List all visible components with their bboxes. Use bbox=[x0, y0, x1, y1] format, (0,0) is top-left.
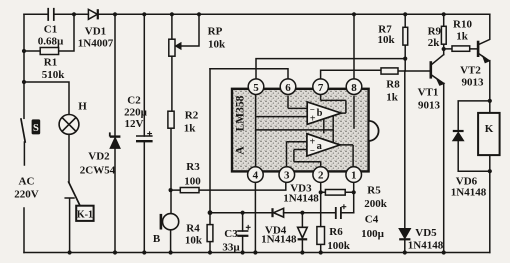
svg-text:3: 3 bbox=[284, 170, 290, 182]
svg-text:1N4148: 1N4148 bbox=[451, 186, 487, 198]
switch S lever bbox=[21, 119, 25, 142]
svg-text:220V: 220V bbox=[14, 189, 39, 201]
svg-text:10k: 10k bbox=[377, 34, 395, 46]
wire VT2 emitter down bbox=[478, 53, 489, 101]
resistor R3 bbox=[180, 188, 199, 193]
wire RP wiper bbox=[181, 14, 199, 46]
svg-text:1: 1 bbox=[351, 170, 357, 182]
wire a output to pin1 bbox=[340, 145, 353, 167]
zener diode VD2 bbox=[110, 132, 121, 148]
pin circles bbox=[248, 79, 362, 183]
wire b output to pin7 bbox=[321, 95, 346, 113]
wire pin8 to top rail bbox=[353, 14, 355, 79]
svg-text:1N4007: 1N4007 bbox=[78, 38, 114, 50]
svg-text:1k: 1k bbox=[456, 31, 469, 43]
wire R10 row bbox=[444, 48, 477, 50]
svg-text:33µ: 33µ bbox=[222, 242, 240, 254]
svg-text:1k: 1k bbox=[184, 123, 197, 135]
wire VT1 emitter bbox=[431, 75, 444, 253]
wire left vertical from top rail to switch bbox=[23, 14, 25, 118]
wire pin1 column bbox=[353, 182, 355, 212]
svg-text:K: K bbox=[485, 123, 494, 135]
svg-text:510k: 510k bbox=[42, 69, 66, 81]
wire branch middle bar bbox=[256, 129, 334, 131]
wire R5 row bbox=[321, 191, 354, 193]
wire vertical V1 between amps bbox=[323, 119, 325, 134]
svg-text:R10: R10 bbox=[453, 19, 472, 31]
svg-text:b: b bbox=[317, 108, 323, 119]
resistor R6 bbox=[317, 227, 325, 245]
wire R3 row to pin 3 bbox=[171, 168, 286, 191]
relay contact label K-1 bbox=[76, 206, 93, 221]
svg-text:5: 5 bbox=[253, 82, 259, 94]
wire pin7 to R8 to VT1 base bbox=[321, 70, 430, 79]
svg-text:8: 8 bbox=[351, 82, 357, 94]
wire pin6 net long vertical x=210 bbox=[209, 69, 211, 225]
svg-text:R3: R3 bbox=[186, 161, 200, 173]
diode VD6 bbox=[453, 131, 464, 141]
op-amp a triangle bbox=[307, 134, 340, 156]
capacitor C3 bbox=[237, 225, 250, 236]
svg-text:2CW54: 2CW54 bbox=[80, 165, 116, 177]
resistor R1 bbox=[40, 48, 58, 55]
pin 3 bbox=[279, 167, 295, 183]
diode VD1 bbox=[88, 9, 97, 19]
capacitor C4 bbox=[336, 204, 347, 219]
svg-text:9013: 9013 bbox=[462, 77, 485, 89]
svg-text:2: 2 bbox=[318, 170, 324, 182]
wire VD6 bottom loop bbox=[458, 141, 490, 172]
wire lamp to relay contact bbox=[68, 134, 70, 182]
svg-text:4: 4 bbox=[253, 170, 259, 182]
svg-text:VD1: VD1 bbox=[85, 26, 106, 38]
svg-text:1k: 1k bbox=[386, 92, 399, 104]
wire C3 column bbox=[242, 213, 244, 253]
diode VD3 bbox=[273, 208, 284, 217]
wire K column bbox=[489, 101, 491, 253]
svg-text:2k: 2k bbox=[428, 37, 441, 49]
switch S label bbox=[32, 119, 41, 134]
microphone B bbox=[161, 214, 179, 230]
pin 1 bbox=[346, 167, 362, 183]
svg-text:1N4148: 1N4148 bbox=[283, 193, 319, 205]
svg-text:1N4148: 1N4148 bbox=[408, 239, 444, 251]
svg-text:+: + bbox=[310, 114, 316, 125]
svg-text:6: 6 bbox=[285, 82, 291, 94]
pin 2 bbox=[313, 167, 329, 183]
wire pin5 to pin4 internal bbox=[255, 95, 257, 167]
wire VD2 column bbox=[114, 14, 116, 252]
svg-text:200k: 200k bbox=[364, 198, 388, 210]
svg-text:a: a bbox=[317, 141, 323, 152]
resistor R5 bbox=[325, 190, 345, 196]
wire mic to bottom rail bbox=[170, 230, 172, 253]
resistor R8 bbox=[381, 68, 398, 74]
wire R7 column bbox=[404, 14, 406, 71]
op-amp b triangle bbox=[307, 102, 341, 125]
capacitor C1 bbox=[48, 8, 54, 21]
wire top rail bbox=[24, 13, 490, 15]
pin 5 bbox=[248, 79, 264, 95]
svg-text:VD5: VD5 bbox=[415, 227, 437, 239]
resistor R2 bbox=[168, 111, 174, 128]
pin 4 bbox=[248, 167, 264, 183]
svg-text:R6: R6 bbox=[329, 226, 343, 238]
svg-text:K-1: K-1 bbox=[77, 210, 93, 221]
svg-text:C3: C3 bbox=[224, 228, 238, 240]
svg-text:LM358: LM358 bbox=[235, 95, 247, 131]
wire VT2 collector to top rail corner bbox=[478, 14, 489, 44]
relay K bbox=[478, 113, 500, 155]
wire switch to AC gap bbox=[23, 142, 25, 165]
wire pin8 internal stub bbox=[353, 96, 355, 129]
wire branch to b plus input bbox=[256, 116, 308, 118]
svg-text:12V: 12V bbox=[125, 118, 144, 130]
svg-text:C2: C2 bbox=[127, 95, 141, 107]
svg-text:220µ: 220µ bbox=[124, 107, 148, 119]
svg-text:S: S bbox=[33, 123, 39, 134]
svg-text:R4: R4 bbox=[186, 222, 200, 234]
wire pin2 zigzag to a minus bbox=[294, 150, 321, 167]
transistor VT2 bbox=[478, 41, 489, 63]
wire R2 down to mic bbox=[170, 128, 172, 213]
wire signal net y=212.7 bbox=[210, 212, 354, 214]
IC internal wires bbox=[256, 95, 354, 167]
wire vertical V2 between amps bbox=[332, 116, 334, 143]
resistor R4 bbox=[207, 225, 213, 242]
wire bottom rail bbox=[24, 252, 490, 254]
relay contact fixed terminal tick bbox=[65, 198, 74, 253]
wire VT1 collector bbox=[431, 49, 444, 65]
resistor R7 bbox=[403, 27, 408, 45]
wire lamp branch bbox=[24, 82, 69, 115]
wire pin3 to a plus bbox=[287, 142, 307, 167]
wire R4 bottom bbox=[209, 242, 211, 253]
wire C2 column bbox=[143, 14, 145, 252]
svg-text:100k: 100k bbox=[327, 240, 351, 252]
pin 6 bbox=[280, 79, 296, 95]
wire VD6 branch top bbox=[458, 101, 490, 131]
pin 7 bbox=[313, 79, 329, 95]
svg-text:7: 7 bbox=[318, 82, 324, 94]
svg-text:VT2: VT2 bbox=[460, 65, 481, 77]
svg-text:1N4148: 1N4148 bbox=[261, 234, 297, 246]
svg-text:AC: AC bbox=[19, 176, 35, 188]
wire R9 column bbox=[443, 14, 445, 49]
svg-text:RP: RP bbox=[208, 26, 223, 38]
svg-text:100µ: 100µ bbox=[361, 228, 385, 240]
wire VD5 column bbox=[404, 71, 406, 253]
svg-text:A: A bbox=[235, 146, 247, 155]
svg-text:VT1: VT1 bbox=[418, 86, 439, 98]
diode VD4 bbox=[298, 227, 308, 239]
wire AC gap to bottom rail bbox=[23, 208, 25, 253]
svg-text:10k: 10k bbox=[185, 234, 203, 246]
resistor R10 bbox=[452, 46, 470, 51]
wire RP column top bbox=[171, 14, 173, 111]
svg-text:VD2: VD2 bbox=[88, 151, 110, 163]
op-amp U1 LM358 package bbox=[232, 89, 379, 172]
wire pin6 to b minus bbox=[288, 96, 307, 109]
potentiometer RP bbox=[169, 39, 181, 56]
svg-text:0.68µ: 0.68µ bbox=[38, 36, 64, 48]
transistor VT1 bbox=[431, 61, 444, 85]
lamp H bbox=[59, 115, 79, 135]
pin numbers bbox=[253, 82, 358, 182]
capacitor C2 bbox=[136, 131, 153, 141]
svg-text:100: 100 bbox=[184, 176, 201, 188]
wire VD4 column bbox=[301, 213, 303, 253]
relay contact K-1 lever bbox=[69, 182, 80, 205]
svg-text:C4: C4 bbox=[365, 214, 379, 226]
svg-text:C1: C1 bbox=[44, 24, 57, 36]
svg-text:−: − bbox=[310, 146, 315, 156]
wire pin6 net horizontal y=68.8 bbox=[210, 69, 288, 79]
diode VD5 bbox=[399, 229, 410, 240]
wire pin5 long row y=58.6 bbox=[256, 59, 405, 79]
svg-text:H: H bbox=[78, 101, 87, 113]
svg-text:R5: R5 bbox=[367, 185, 381, 197]
wire pin4 ground column bbox=[254, 182, 256, 252]
svg-text:R1: R1 bbox=[44, 57, 57, 69]
wire R1 branch bbox=[24, 14, 74, 51]
pin 8 bbox=[346, 79, 362, 95]
svg-text:10k: 10k bbox=[208, 39, 226, 51]
svg-text:R2: R2 bbox=[185, 110, 199, 122]
svg-text:R9: R9 bbox=[428, 26, 442, 38]
svg-text:R8: R8 bbox=[386, 79, 400, 91]
wire pin2 R6 column bbox=[320, 182, 322, 252]
svg-text:B: B bbox=[153, 233, 161, 245]
resistor R9 bbox=[441, 26, 446, 44]
svg-text:9013: 9013 bbox=[418, 99, 441, 111]
